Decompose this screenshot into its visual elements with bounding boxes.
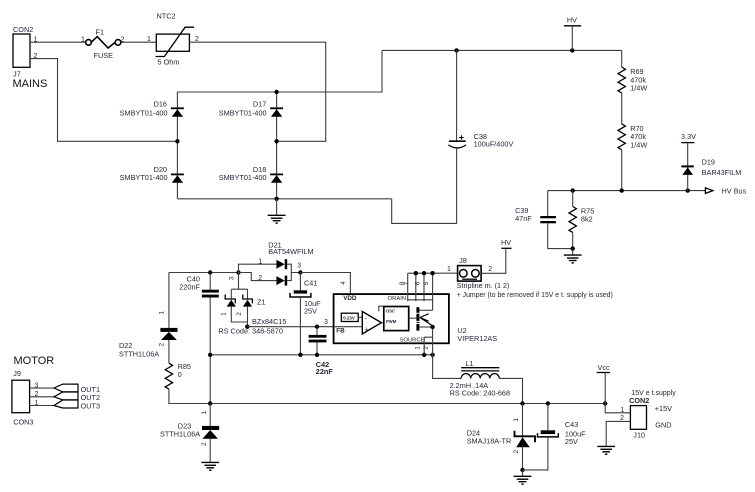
svg-text:2: 2 (513, 450, 520, 454)
svg-text:FB: FB (336, 328, 345, 335)
svg-text:0: 0 (178, 370, 182, 379)
svg-text:1: 1 (513, 418, 520, 422)
svg-text:2: 2 (488, 266, 492, 273)
svg-text:L1: L1 (466, 359, 474, 368)
svg-text:+ Jumper (to be removed if 15V: + Jumper (to be removed if 15V e t. supp… (457, 292, 613, 299)
svg-text:1/4W: 1/4W (630, 84, 647, 93)
svg-text:0.23V: 0.23V (343, 316, 355, 321)
svg-text:7: 7 (404, 281, 411, 285)
svg-text:25V: 25V (565, 437, 578, 446)
svg-text:2: 2 (620, 415, 624, 422)
svg-text:1: 1 (415, 346, 422, 350)
svg-text:1: 1 (81, 37, 85, 44)
svg-text:D17: D17 (253, 100, 266, 109)
svg-text:1: 1 (258, 258, 262, 265)
svg-text:2: 2 (35, 391, 39, 398)
svg-text:6: 6 (414, 281, 421, 285)
svg-text:3: 3 (324, 319, 328, 326)
svg-text:DRAIN: DRAIN (388, 296, 406, 302)
svg-text:VIPER12AS: VIPER12AS (457, 334, 497, 343)
svg-text:1: 1 (35, 400, 39, 407)
svg-text:2: 2 (236, 312, 243, 316)
svg-text:4: 4 (340, 281, 347, 285)
svg-text:220nF: 220nF (179, 283, 200, 292)
svg-text:OUT3: OUT3 (81, 401, 100, 410)
svg-text:CON2: CON2 (629, 396, 649, 405)
svg-text:22nF: 22nF (316, 367, 334, 376)
svg-text:F1: F1 (96, 28, 105, 37)
svg-text:1: 1 (159, 311, 166, 315)
svg-text:MAINS: MAINS (13, 78, 48, 90)
svg-text:+: + (364, 327, 368, 334)
svg-text:GND: GND (655, 420, 671, 429)
svg-text:HV: HV (501, 238, 511, 247)
svg-text:1: 1 (621, 407, 625, 414)
svg-text:5 Ohm: 5 Ohm (158, 58, 180, 67)
svg-text:1: 1 (201, 411, 208, 415)
svg-text:C43: C43 (565, 420, 578, 429)
svg-text:D19: D19 (702, 157, 715, 166)
svg-text:J9: J9 (13, 369, 21, 378)
svg-text:100uF/400V: 100uF/400V (474, 140, 514, 149)
svg-text:SOURCE: SOURCE (400, 337, 425, 343)
svg-text:HV Bus: HV Bus (722, 186, 747, 195)
svg-text:1/4W: 1/4W (630, 140, 647, 149)
svg-text:Stripline m. (1 2): Stripline m. (1 2) (457, 281, 510, 290)
svg-text:1: 1 (147, 36, 151, 43)
svg-text:RS Code: 240-668: RS Code: 240-668 (450, 388, 510, 397)
svg-text:Z1: Z1 (257, 298, 266, 307)
svg-text:D16: D16 (154, 100, 167, 109)
svg-text:CON2: CON2 (13, 25, 33, 34)
svg-text:RS Code: 348-5870: RS Code: 348-5870 (218, 327, 283, 336)
svg-text:SMBYT01-400: SMBYT01-400 (219, 173, 267, 182)
svg-text:NTC2: NTC2 (157, 12, 176, 21)
svg-text:SMBYT01-400: SMBYT01-400 (219, 108, 267, 117)
svg-text:1: 1 (221, 312, 228, 316)
svg-text:CON3: CON3 (13, 418, 33, 427)
svg-text:BAR43FILM: BAR43FILM (702, 168, 742, 177)
svg-text:SMBYT01-400: SMBYT01-400 (120, 173, 168, 182)
svg-text:2: 2 (258, 275, 262, 282)
svg-text:SMAJ18A-TR: SMAJ18A-TR (467, 436, 512, 445)
svg-text:1: 1 (447, 266, 451, 273)
svg-text:VDD: VDD (343, 295, 357, 302)
svg-text:2: 2 (159, 343, 166, 347)
svg-text:2: 2 (201, 442, 208, 446)
svg-text:C41: C41 (304, 279, 317, 288)
svg-text:25V: 25V (304, 306, 317, 315)
svg-text:MOTOR: MOTOR (14, 355, 55, 367)
svg-text:5: 5 (423, 281, 430, 285)
svg-text:BAT54WFILM: BAT54WFILM (268, 247, 313, 256)
svg-text:STTH1L06A: STTH1L06A (119, 349, 159, 358)
svg-text:47nF: 47nF (515, 214, 532, 223)
svg-text:OSC: OSC (386, 308, 395, 313)
svg-text:Vcc: Vcc (598, 363, 611, 372)
svg-text:+15V: +15V (655, 404, 672, 413)
svg-text:3: 3 (297, 263, 301, 270)
svg-text:J8: J8 (459, 256, 467, 265)
svg-text:3: 3 (229, 276, 236, 280)
svg-text:8k2: 8k2 (581, 215, 593, 224)
svg-text:STTH1L06A: STTH1L06A (160, 429, 200, 438)
svg-text:PWM: PWM (386, 319, 397, 324)
svg-text:J10: J10 (633, 431, 645, 440)
svg-text:HV: HV (567, 16, 577, 25)
svg-text:2: 2 (423, 346, 430, 350)
svg-text:SMBYT01-400: SMBYT01-400 (120, 108, 168, 117)
svg-text:BZx84C15: BZx84C15 (252, 317, 286, 326)
svg-text:3: 3 (35, 382, 39, 389)
svg-text:3.3V: 3.3V (681, 132, 696, 141)
svg-text:FUSE: FUSE (94, 51, 114, 60)
